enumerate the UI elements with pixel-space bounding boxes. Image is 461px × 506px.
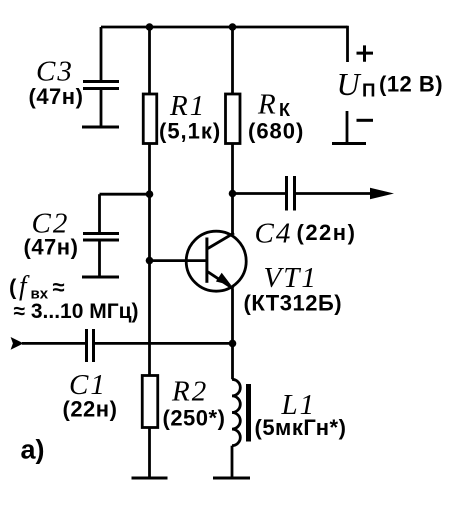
ground bar under C2 xyxy=(82,276,119,279)
svg-text:a): a) xyxy=(21,435,45,465)
resistor R2 xyxy=(142,376,158,428)
ground bar left xyxy=(132,477,168,480)
wire +terminal stub xyxy=(346,26,349,62)
svg-text:(680): (680) xyxy=(248,119,304,144)
node junction input / emitter xyxy=(229,340,237,348)
svg-text:(12 В): (12 В) xyxy=(379,72,443,97)
wire C3 bottom lead xyxy=(100,89,103,127)
ground bar right xyxy=(213,477,250,480)
svg-text:≈: ≈ xyxy=(53,275,65,300)
svg-text:(: ( xyxy=(9,275,17,300)
capacitor C2 xyxy=(83,234,119,241)
svg-text:≈ 3...10 МГц): ≈ 3...10 МГц) xyxy=(14,300,139,323)
node junction output / collector xyxy=(229,190,237,198)
resistor R1 xyxy=(143,94,157,144)
node junction base / divider xyxy=(146,257,154,265)
svg-text:(КТ312Б): (КТ312Б) xyxy=(244,291,343,316)
plus sign xyxy=(357,45,374,61)
wire divider middle (R1 to base node) xyxy=(148,144,151,376)
svg-text:(250*): (250*) xyxy=(163,406,226,431)
wire input line left of C1 xyxy=(22,342,87,345)
transistor VT1 emitter diagonal xyxy=(208,272,234,289)
wire output to arrow xyxy=(295,192,375,195)
input arrow head xyxy=(11,337,24,350)
svg-text:(22н): (22н) xyxy=(297,220,357,245)
resistor RK xyxy=(226,94,241,144)
ground bar under C3 xyxy=(82,126,119,129)
svg-text:R2: R2 xyxy=(171,376,208,408)
svg-text:U: U xyxy=(337,66,362,102)
node junction top rail / divider xyxy=(146,23,154,31)
wire divider upper (rail to R1) xyxy=(148,27,151,94)
svg-text:f: f xyxy=(19,271,30,301)
capacitor C3 xyxy=(83,82,119,89)
wire C3 top lead xyxy=(100,27,103,81)
transistor VT1 circle xyxy=(186,231,246,291)
wire top supply rail xyxy=(101,26,348,29)
capacitor C1 xyxy=(87,329,94,362)
wire base connection xyxy=(150,259,207,262)
svg-text:(5,1к): (5,1к) xyxy=(159,119,221,144)
capacitor C4 xyxy=(287,176,295,211)
svg-text:R: R xyxy=(257,89,278,121)
node junction top rail / collector branch xyxy=(229,23,237,31)
wire collector branch upper (rail to RK) xyxy=(231,27,234,94)
wire collector (RK to transistor) xyxy=(231,144,234,234)
minus sign xyxy=(357,119,374,122)
inductor L1 loops xyxy=(232,379,240,445)
wire -terminal stub xyxy=(346,111,349,143)
wire L1 to ground xyxy=(231,446,234,478)
transistor VT1 emitter arrow head xyxy=(216,273,231,286)
wire C2 bottom lead xyxy=(98,240,101,276)
inductor L1 core bar xyxy=(246,384,251,442)
svg-text:(47н): (47н) xyxy=(29,84,84,109)
svg-text:К: К xyxy=(279,100,291,120)
wire R2 to ground xyxy=(148,428,151,479)
wire emitter down xyxy=(231,289,234,380)
transistor VT1 collector diagonal xyxy=(208,233,234,249)
svg-text:П: П xyxy=(362,81,376,101)
transistor VT1 base bar xyxy=(205,238,208,283)
svg-text:(47н): (47н) xyxy=(24,235,79,260)
wire output line xyxy=(233,192,287,195)
svg-text:C4: C4 xyxy=(255,218,293,250)
wire C2 branch horizontal xyxy=(100,193,150,196)
svg-text:R1: R1 xyxy=(169,90,206,122)
wire C2 top lead xyxy=(98,194,101,233)
svg-text:C3: C3 xyxy=(36,56,74,88)
svg-text:VT1: VT1 xyxy=(264,262,318,294)
node junction C2 / divider xyxy=(146,190,154,198)
svg-text:(22н): (22н) xyxy=(63,397,118,422)
ground bar -terminal xyxy=(332,142,366,145)
wire input line right of C1 xyxy=(94,342,233,345)
svg-text:(5мкГн*): (5мкГн*) xyxy=(255,415,347,440)
output arrow head xyxy=(370,188,394,200)
